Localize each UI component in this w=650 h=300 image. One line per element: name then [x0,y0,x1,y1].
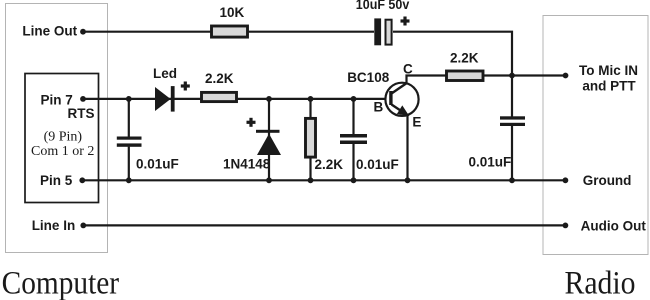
plus sign of D1 [181,82,190,91]
svg-text:C: C [403,62,413,77]
wire: R4 branch (x=310.5) [309,99,311,180]
svg-text:2.2K: 2.2K [205,71,234,86]
resistor R3 2.2K (collector load) [447,71,484,81]
svg-text:Com 1 or 2: Com 1 or 2 [31,144,94,159]
wire: C3 branch upper [511,76,513,117]
svg-text:10K: 10K [220,5,245,20]
svg-text:Line In: Line In [32,218,75,233]
junction dot: R4 bottom [308,177,314,183]
svg-text:Pin 5: Pin 5 [40,173,73,188]
junction dot: To Mic IN terminal [563,73,569,79]
wire: emitter branch (x=407) [406,114,408,180]
junction dot: collector node [509,73,515,79]
wire: Line In / Audio Out rail (y=225.4) [83,224,565,226]
wire: ground rail (y=180.3) [82,179,565,181]
capacitor C2 0.01uF [340,134,367,144]
junction dot: C1 top [126,96,132,102]
svg-text:BC108: BC108 [347,70,390,85]
svg-text:Led: Led [153,66,177,81]
wire: C3 branch lower [511,126,513,181]
wire: collector rail (y=75.5) [407,76,566,85]
junction dot: Ground terminal [563,177,569,183]
computer box [6,4,108,253]
diode D1 Led [155,86,175,112]
junction dot: R4 top [308,96,314,102]
wire: C1 branch upper [128,99,130,137]
svg-text:To Mic IN: To Mic IN [579,63,638,78]
svg-text:10uF 50v: 10uF 50v [356,0,410,12]
resistor R4 2.2K (vertical) [306,118,316,157]
connector box (9 pin) [25,74,99,203]
wire: C1 branch lower [128,147,130,181]
junction dot: D2 top [266,96,272,102]
svg-text:2.2K: 2.2K [450,51,479,66]
junction dot: C3 bottom [509,177,515,183]
svg-text:B: B [374,99,384,114]
radio box [543,16,648,255]
svg-text:Line Out: Line Out [22,23,77,38]
junction dot: D2 bottom [266,177,272,183]
svg-text:Radio: Radio [565,265,636,300]
junction dot: C1 bottom [126,177,132,183]
wire: C2 branch upper [352,99,354,134]
svg-text:(9 Pin): (9 Pin) [44,130,83,145]
transistor Q1 BC108 [385,83,418,116]
svg-text:Ground: Ground [583,173,632,188]
diode D2 1N4148 [256,130,281,155]
junction dot: Pin 5 terminal [79,177,85,183]
svg-text:and PTT: and PTT [582,78,636,93]
svg-text:0.01uF: 0.01uF [136,157,179,172]
junction dot: C2 top [351,96,357,102]
capacitor C4 10uF 50v (electrolytic) [374,18,391,45]
wire: Line Out rail right of C4 to corner, down to collector node [393,32,512,76]
junction dot: Audio Out terminal [563,223,569,229]
junction dot: Line In terminal [80,223,86,229]
resistor R2 2.2K [202,92,237,101]
junction dot: Pin 7 terminal [80,96,86,102]
capacitor C1 0.01uF [117,137,142,147]
capacitor C3 0.01uF [500,116,525,126]
svg-text:0.01uF: 0.01uF [356,157,399,172]
svg-text:1N4148: 1N4148 [223,157,271,172]
plus sign of D2 [247,118,256,127]
svg-text:0.01uF: 0.01uF [469,155,512,170]
wire: Pin 7 / RTS rail (y=99.7) [83,98,390,100]
svg-text:2.2K: 2.2K [315,157,344,172]
wire: D2 branch (x=269) [268,99,270,180]
resistor R1 10K [212,26,248,37]
svg-text:E: E [412,114,421,129]
svg-text:RTS: RTS [68,106,95,121]
junction dot: emitter bottom [405,177,411,183]
svg-text:Audio Out: Audio Out [581,218,647,233]
svg-text:Computer: Computer [2,266,120,300]
junction dot: Line Out terminal [80,29,86,35]
wire: Line Out rail (y=31.7) [83,31,374,33]
junction dot: C2 bottom [351,177,357,183]
plus sign of C4 [401,17,410,26]
wire: C2 branch lower [352,144,354,181]
